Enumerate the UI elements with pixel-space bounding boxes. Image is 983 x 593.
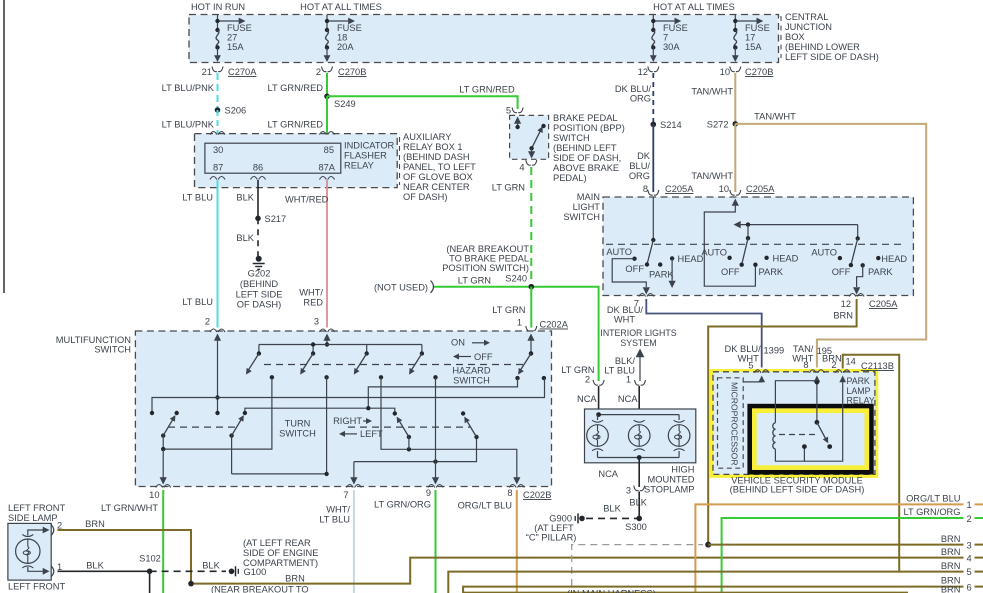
wire BLK (side lamp pin1 to S102) xyxy=(58,570,150,572)
svg-text:LEFT FRONT: LEFT FRONT xyxy=(8,582,65,592)
MF pin9 riser xyxy=(432,377,439,484)
svg-text:DK BLU/: DK BLU/ xyxy=(725,344,762,354)
label DK BLU/ORG (lower) xyxy=(629,151,651,181)
wire BRN (MLS pin12 down, left, down to splice) xyxy=(708,299,856,545)
MLS group2 wire from pin 10 xyxy=(704,199,755,287)
MF wire E xyxy=(232,377,329,476)
svg-text:LT GRN: LT GRN xyxy=(458,276,491,286)
fuse 17 15A xyxy=(732,15,770,63)
svg-text:WHT: WHT xyxy=(614,315,635,325)
MF switch pin 2 connector xyxy=(205,317,225,333)
hazard switch bus xyxy=(259,342,422,353)
svg-text:SIDE OF DASH,: SIDE OF DASH, xyxy=(553,153,621,163)
svg-text:(NEAR BREAKOUT TO: (NEAR BREAKOUT TO xyxy=(211,585,309,593)
side lamp pin 1 xyxy=(43,562,62,577)
splice S240 xyxy=(505,274,534,290)
splice S272 xyxy=(707,120,738,130)
connector C2113B pin 14 xyxy=(846,357,894,372)
park lamp relay box (black border, yellow inner) xyxy=(750,406,872,472)
svg-text:ORG/LT BLU: ORG/LT BLU xyxy=(458,501,512,511)
wire DK BLU/ORG (S214 to C205A pin 8) xyxy=(652,124,654,192)
svg-text:15A: 15A xyxy=(227,42,244,52)
svg-text:BRN: BRN xyxy=(941,547,961,557)
MF pin3 riser wire xyxy=(323,334,330,347)
svg-text:MAIN: MAIN xyxy=(577,192,600,202)
label BRAKE PEDAL POSITION SWITCH xyxy=(553,113,625,183)
label WHT/RED (lower) xyxy=(299,288,323,308)
svg-text:2: 2 xyxy=(316,67,321,77)
MLS group3 OFF label xyxy=(832,267,851,277)
svg-text:ORG: ORG xyxy=(630,94,651,104)
label LT GRN/RED (upper) xyxy=(268,83,324,93)
auxiliary relay box 1 (dashed outline) xyxy=(195,134,398,188)
svg-text:HEAD: HEAD xyxy=(678,254,704,264)
svg-text:2: 2 xyxy=(967,514,972,524)
connector pin 12 xyxy=(638,67,659,78)
svg-text:NCA: NCA xyxy=(618,394,638,404)
svg-text:C270B: C270B xyxy=(745,67,773,77)
label LEFT FRONT SIDE LAMP xyxy=(8,503,65,523)
label NCA (pin 2) xyxy=(577,394,597,404)
svg-text:LT BLU: LT BLU xyxy=(182,193,213,203)
wire LT GRN/WHT (pin10 to bottom) xyxy=(162,490,164,593)
svg-text:C202A: C202A xyxy=(540,320,569,330)
MF pin 10 connector xyxy=(149,485,171,501)
wire NCA (stoplamp to pin 3) xyxy=(638,458,640,488)
svg-text:RELAY: RELAY xyxy=(847,395,875,405)
splice S217 xyxy=(255,214,286,224)
svg-text:PARK: PARK xyxy=(847,376,870,386)
label LEFT with arrow xyxy=(339,429,383,439)
svg-text:4: 4 xyxy=(519,163,524,173)
svg-text:HOT IN RUN: HOT IN RUN xyxy=(191,2,245,12)
connector C205A pin 8 xyxy=(643,184,694,195)
wire TAN/WHT (C270B pin10 to S272) xyxy=(734,73,736,124)
svg-text:SWITCH: SWITCH xyxy=(553,133,590,143)
label LT BLU (upper) xyxy=(182,193,213,203)
side lamp internal wires xyxy=(28,530,45,571)
svg-text:PEDAL): PEDAL) xyxy=(553,173,587,183)
svg-text:2: 2 xyxy=(585,375,590,385)
svg-text:OF DASH): OF DASH) xyxy=(237,299,281,309)
BPP switch box (dashed) xyxy=(510,115,549,159)
MLS group2 blade xyxy=(740,236,751,267)
svg-text:LT BLU: LT BLU xyxy=(182,297,213,307)
svg-text:BLK: BLK xyxy=(236,193,254,203)
svg-text:S214: S214 xyxy=(660,120,682,130)
svg-text:85: 85 xyxy=(324,145,334,155)
label ORG/LT BLU xyxy=(458,501,512,511)
svg-text:RELAY: RELAY xyxy=(344,161,374,171)
svg-text:12: 12 xyxy=(638,67,648,77)
svg-text:C205A: C205A xyxy=(869,299,898,309)
wire LT BLU (flasher 87 to multifunction pin 2, cyan) xyxy=(217,180,219,328)
svg-text:BRN: BRN xyxy=(822,354,842,364)
connector C270A pin 21 xyxy=(202,67,258,78)
svg-text:12: 12 xyxy=(841,299,851,309)
label OFF with arrow xyxy=(453,352,493,362)
svg-text:G202: G202 xyxy=(248,269,271,279)
svg-text:AUTO: AUTO xyxy=(811,248,837,258)
svg-text:1399: 1399 xyxy=(764,346,785,356)
label BRN 6 (right edge) xyxy=(941,576,972,593)
svg-text:8: 8 xyxy=(507,488,512,498)
svg-text:DK BLU/: DK BLU/ xyxy=(607,305,644,315)
svg-text:SIDE OF ENGINE: SIDE OF ENGINE xyxy=(243,548,318,558)
label MICROPROCESSOR xyxy=(730,382,740,466)
microprocessor box (dashed) xyxy=(718,378,744,468)
relay contact to pin2 wire xyxy=(804,379,842,462)
splice S102 xyxy=(139,554,161,575)
central junction box (dashed outline, blue fill) xyxy=(189,15,779,63)
svg-text:C205A: C205A xyxy=(746,184,775,194)
interior lights system arrow xyxy=(636,349,645,382)
MLS pin 7 connector xyxy=(634,294,654,309)
svg-text:ORG/LT BLU: ORG/LT BLU xyxy=(906,493,960,503)
relay switch blade xyxy=(815,420,833,449)
svg-text:CENTRAL: CENTRAL xyxy=(785,12,828,22)
svg-text:MICROPROCESSOR: MICROPROCESSOR xyxy=(730,382,740,466)
svg-text:30: 30 xyxy=(213,145,223,155)
svg-text:S249: S249 xyxy=(334,99,356,109)
svg-text:BOX: BOX xyxy=(785,32,805,42)
svg-text:15A: 15A xyxy=(745,42,762,52)
svg-text:S217: S217 xyxy=(265,214,287,224)
svg-text:LIGHT: LIGHT xyxy=(573,202,601,212)
page border line (left edge) xyxy=(3,0,5,293)
svg-text:18: 18 xyxy=(337,33,347,43)
svg-text:“C” PILLAR): “C” PILLAR) xyxy=(526,533,577,543)
wire ORG/LT BLU (pin8 to bottom) xyxy=(516,490,518,593)
svg-text:SWITCH: SWITCH xyxy=(94,345,131,355)
svg-text:7: 7 xyxy=(663,33,668,43)
MLS group3 AUTO contact xyxy=(811,248,842,261)
turn blade 2 xyxy=(229,411,247,474)
wire DK BLU/WHT (MLS pin7 to VSM pin 5) xyxy=(646,299,761,368)
ground G900 xyxy=(549,513,585,523)
svg-text:AUTO: AUTO xyxy=(701,248,727,258)
svg-text:AUTO: AUTO xyxy=(606,247,632,257)
turn blade 4 xyxy=(461,411,479,439)
MF wire C xyxy=(245,406,395,414)
wire LT BLU/PNK (C270A pin21 to S206, dashed cyan) xyxy=(217,73,219,110)
svg-text:3: 3 xyxy=(626,486,631,496)
svg-text:C2113B: C2113B xyxy=(861,361,894,371)
wire BRN (line 6) xyxy=(463,587,983,593)
label WHT/LT BLU xyxy=(319,505,350,525)
label LT GRN (above C202A) xyxy=(492,305,525,315)
svg-text:DK BLU/: DK BLU/ xyxy=(615,84,652,94)
svg-text:RELAY BOX 1: RELAY BOX 1 xyxy=(403,142,463,152)
svg-text:S272: S272 xyxy=(707,120,729,130)
turn blade 3 xyxy=(393,411,412,449)
label BRN 5 (right edge) xyxy=(941,561,972,577)
label MULTIFUNCTION SWITCH xyxy=(56,335,131,355)
svg-text:27: 27 xyxy=(227,33,237,43)
side lamp bulb xyxy=(16,535,40,568)
wire LT GRN/ORG (line 2) xyxy=(722,518,983,593)
connector C205A pin 12 xyxy=(841,294,899,310)
splice S300 xyxy=(625,516,647,532)
connector C270B pin 10 xyxy=(720,67,774,78)
wire BRN (VSM pin2 via C2113B to line 5) xyxy=(843,355,983,572)
stoplamp bulb 2 xyxy=(628,420,650,451)
label BLK (mid) xyxy=(236,233,254,243)
side lamp pin 2 xyxy=(43,521,62,536)
label BRN (side lamp) xyxy=(85,519,105,529)
svg-text:SWITCH: SWITCH xyxy=(453,375,490,385)
wire BRN (side lamp pin2 to line 4) xyxy=(58,530,983,584)
label CENTRAL JUNCTION BOX xyxy=(781,12,879,62)
svg-text:HEAD: HEAD xyxy=(881,254,907,264)
svg-text:TAN/WHT: TAN/WHT xyxy=(754,112,796,122)
flasher pin 87A connector xyxy=(318,163,335,180)
svg-text:(BEHIND: (BEHIND xyxy=(240,279,279,289)
flasher pin 30 connector xyxy=(210,132,225,155)
svg-text:LT BLU: LT BLU xyxy=(319,515,350,525)
svg-text:S102: S102 xyxy=(139,554,161,564)
stoplamp top bus xyxy=(596,412,679,420)
svg-text:(BEHIND LEFT SIDE OF DASH): (BEHIND LEFT SIDE OF DASH) xyxy=(730,485,865,495)
label DK BLU/WHT 1399 (VSM pin5) xyxy=(725,344,785,364)
label LT BLU/PNK (lower) xyxy=(162,120,215,130)
label NCA (bottom) xyxy=(598,469,618,479)
BPP pin 4 connector xyxy=(519,160,536,173)
svg-text:POSITION (BPP): POSITION (BPP) xyxy=(553,123,625,133)
svg-text:PANEL, TO LEFT: PANEL, TO LEFT xyxy=(403,162,476,172)
svg-text:LT GRN/ORG: LT GRN/ORG xyxy=(374,500,431,510)
wire LT GRN (not-used arc to S240 to stoplamp pin 2) xyxy=(434,287,599,381)
label (NOT USED) with arc xyxy=(374,281,434,294)
svg-text:BRN: BRN xyxy=(85,519,105,529)
label HOT AT ALL TIMES (left) xyxy=(300,2,382,12)
svg-text:87A: 87A xyxy=(318,163,335,173)
svg-text:INTERIOR LIGHTS: INTERIOR LIGHTS xyxy=(600,328,676,338)
svg-text:LAMP: LAMP xyxy=(847,386,871,396)
label HOT AT ALL TIMES (right) xyxy=(653,2,735,12)
splice S206 xyxy=(215,106,247,116)
wire BLK (S300 to G900, dashed) xyxy=(586,517,639,519)
ground G202 xyxy=(236,256,283,310)
wire BRN (line 7 bottom edge) xyxy=(464,592,908,593)
svg-text:6: 6 xyxy=(967,582,972,592)
svg-text:PARK: PARK xyxy=(649,270,674,280)
label LT BLU (lower) xyxy=(182,297,213,307)
turn blade 1 xyxy=(150,411,179,485)
svg-text:20A: 20A xyxy=(337,42,354,52)
svg-text:LT GRN/RED: LT GRN/RED xyxy=(459,85,515,95)
label BLK (to G900) xyxy=(603,504,621,514)
svg-text:TAN/: TAN/ xyxy=(793,344,814,354)
svg-text:TURN: TURN xyxy=(285,419,311,429)
MLS group2 PARK contact xyxy=(753,263,784,278)
fuse 27 15A xyxy=(214,15,252,63)
svg-text:LT BLU/PNK: LT BLU/PNK xyxy=(162,83,215,93)
label VEHICLE SECURITY MODULE xyxy=(730,476,865,495)
label LT GRN/WHT xyxy=(101,503,158,513)
splice S214 xyxy=(651,120,682,130)
svg-text:OFF: OFF xyxy=(721,267,740,277)
stoplamp pin 3 connector xyxy=(626,486,645,496)
MLS group2 OFF label xyxy=(721,267,740,277)
stoplamp pin 1 connector xyxy=(626,375,646,386)
VSM coil feed wire xyxy=(775,379,819,423)
wire DK BLU/ORG (pin12 to S214, dashed) xyxy=(652,73,654,124)
svg-text:FLASHER: FLASHER xyxy=(344,151,387,161)
svg-text:5: 5 xyxy=(506,106,511,116)
svg-text:PARK: PARK xyxy=(759,267,784,277)
svg-text:1: 1 xyxy=(967,500,972,510)
label MAIN LIGHT SWITCH xyxy=(563,192,600,222)
svg-text:NEAR CENTER: NEAR CENTER xyxy=(403,182,470,192)
svg-text:BLK: BLK xyxy=(86,561,104,571)
svg-text:G100: G100 xyxy=(244,567,267,577)
label (NEAR BREAKOUT TO BRAKE PEDAL POSITION SWITCH) xyxy=(442,244,529,273)
label BLK/LT BLU xyxy=(604,356,635,376)
connector C205A pin 10 xyxy=(719,184,776,195)
MLS group1 OFF label xyxy=(625,264,644,274)
label HIGH MOUNTED STOPLAMP xyxy=(644,465,695,495)
BPP switch contacts xyxy=(514,117,546,159)
label LT BLU/PNK (upper) xyxy=(162,83,215,93)
svg-text:LT GRN/RED: LT GRN/RED xyxy=(268,83,324,93)
svg-text:BLU/: BLU/ xyxy=(629,161,650,171)
svg-text:STOPLAMP: STOPLAMP xyxy=(644,485,694,495)
svg-text:C205A: C205A xyxy=(665,184,694,194)
junction splice (BRN to line 3) xyxy=(705,542,711,548)
turn mechanical link (dashed) xyxy=(168,426,470,428)
svg-text:30A: 30A xyxy=(663,42,680,52)
svg-text:NCA: NCA xyxy=(598,469,618,479)
svg-text:86: 86 xyxy=(253,163,263,173)
svg-text:17: 17 xyxy=(745,33,755,43)
stoplamp bulb 1 xyxy=(587,420,609,451)
connector C202B pin 8 xyxy=(507,485,551,501)
MLS group1 AUTO contact xyxy=(606,247,636,261)
label BLK (to G100) xyxy=(202,561,220,571)
label TAN/WHT 195 (VSM pin8) xyxy=(792,344,832,364)
svg-text:LT GRN: LT GRN xyxy=(492,183,525,193)
label DK BLU/WHT (at pin 7) xyxy=(607,305,644,325)
svg-text:BRAKE PEDAL: BRAKE PEDAL xyxy=(553,113,618,123)
svg-text:HAZARD: HAZARD xyxy=(452,366,491,376)
svg-text:BLK: BLK xyxy=(236,233,254,243)
svg-text:SIDE LAMP: SIDE LAMP xyxy=(8,513,58,523)
MF pin1 riser wire xyxy=(527,334,534,356)
stoplamp bottom bus xyxy=(598,451,680,460)
svg-text:WHT: WHT xyxy=(738,354,759,364)
VSM pin 5 connector xyxy=(748,361,769,383)
label BRN 7 (right edge) xyxy=(941,585,961,593)
splice S249 xyxy=(324,94,356,110)
svg-text:1: 1 xyxy=(517,318,522,328)
main light switch box (dashed, blue fill) xyxy=(603,197,913,296)
label LEFT FRONT (bottom) xyxy=(8,582,65,592)
svg-text:LT GRN/WHT: LT GRN/WHT xyxy=(101,503,158,513)
svg-text:RIGHT: RIGHT xyxy=(333,416,362,426)
relay mechanical link (dashed) xyxy=(779,434,818,436)
relay coil bottom wire xyxy=(775,447,804,462)
svg-text:BLK: BLK xyxy=(603,504,621,514)
wire NCA (pin2 to stoplamp) xyxy=(598,386,600,415)
svg-text:BRN: BRN xyxy=(941,534,961,544)
svg-text:2: 2 xyxy=(205,317,210,327)
svg-text:LEFT: LEFT xyxy=(360,429,383,439)
svg-text:LEFT SIDE OF DASH): LEFT SIDE OF DASH) xyxy=(785,52,879,62)
fuse 18 20A xyxy=(324,15,362,63)
svg-text:HOT AT ALL TIMES: HOT AT ALL TIMES xyxy=(300,2,382,12)
svg-text:10: 10 xyxy=(720,67,730,77)
MLS group3 PARK to pin12 wire xyxy=(853,265,863,294)
svg-text:(BEHIND LOWER: (BEHIND LOWER xyxy=(785,42,860,52)
wire NCA (pin1 to stoplamp center) xyxy=(638,386,640,425)
svg-text:JUNCTION: JUNCTION xyxy=(785,22,832,32)
wire LT GRN/RED (S249 to BPP switch pin 5) xyxy=(327,96,518,109)
svg-text:C202B: C202B xyxy=(523,490,551,500)
svg-text:RED: RED xyxy=(303,298,323,308)
svg-text:AUXILIARY: AUXILIARY xyxy=(403,132,451,142)
hazard blade 3 xyxy=(351,351,383,379)
wire BLK (S102 to G100, dashed) xyxy=(150,570,226,572)
label LT GRN (below BPP) xyxy=(492,183,525,193)
MF pin7 down arrow xyxy=(350,462,357,485)
label LT GRN (stoplamp feed) xyxy=(561,365,594,375)
MF wire G xyxy=(381,377,517,478)
MF wire B xyxy=(368,378,517,408)
wire BLK (pin3 to S300) xyxy=(638,492,640,519)
flasher pin 86 connector xyxy=(251,163,266,180)
connector C202A pin 1 xyxy=(517,318,569,332)
svg-text:SWITCH: SWITCH xyxy=(279,428,316,438)
left front side lamp box xyxy=(8,523,51,580)
svg-text:(NEAR BREAKOUT: (NEAR BREAKOUT xyxy=(446,244,529,254)
connector C270B pin 2 xyxy=(316,67,367,78)
hazard blade 1 xyxy=(243,351,274,379)
svg-text:WHT/: WHT/ xyxy=(326,505,350,515)
svg-text:MOUNTED: MOUNTED xyxy=(648,475,695,485)
svg-text:ON: ON xyxy=(451,338,465,348)
label ON with arrow xyxy=(451,338,490,348)
wire BRN (line 3) xyxy=(708,544,983,546)
MF wire F xyxy=(354,437,477,464)
svg-text:(BEHIND LEFT: (BEHIND LEFT xyxy=(553,143,617,153)
MLS group1 PARK contact xyxy=(649,262,674,279)
svg-text:LT BLU/PNK: LT BLU/PNK xyxy=(162,120,215,130)
MLS group2 HEAD contact xyxy=(764,254,798,264)
wire WHT/LT BLU (pin7 to bottom) xyxy=(353,490,355,593)
svg-text:TAN/WHT: TAN/WHT xyxy=(691,171,733,181)
svg-text:G900: G900 xyxy=(549,514,572,524)
label (NEAR BREAKOUT TO xyxy=(211,585,309,593)
svg-text:COMPARTMENT): COMPARTMENT) xyxy=(243,558,318,568)
label HAZARD SWITCH xyxy=(452,366,491,386)
svg-text:C270A: C270A xyxy=(228,67,257,77)
svg-text:POSITION SWITCH): POSITION SWITCH) xyxy=(442,263,529,273)
svg-text:WHT/RED: WHT/RED xyxy=(285,195,329,205)
svg-text:(IN MAIN HARNESS): (IN MAIN HARNESS) xyxy=(567,589,656,593)
MLS group1 HEAD arrow line xyxy=(669,258,676,288)
high mounted stoplamp box xyxy=(585,409,696,463)
svg-text:HOT AT ALL TIMES: HOT AT ALL TIMES xyxy=(653,2,735,12)
svg-text:BLK: BLK xyxy=(202,561,220,571)
svg-text:LT GRN: LT GRN xyxy=(492,305,525,315)
svg-text:S240: S240 xyxy=(505,274,527,284)
svg-text:C270B: C270B xyxy=(338,67,366,77)
svg-text:SYSTEM: SYSTEM xyxy=(620,338,656,348)
svg-text:S206: S206 xyxy=(225,106,247,116)
svg-text:PARK: PARK xyxy=(868,267,893,277)
hazard blade 4 xyxy=(406,351,437,379)
